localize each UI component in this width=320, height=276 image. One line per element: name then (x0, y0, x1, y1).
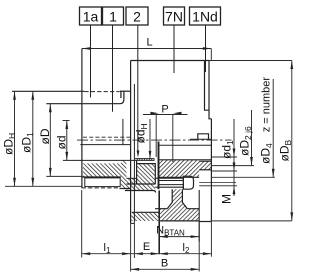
svg-text:NBTAN: NBTAN (156, 225, 185, 238)
svg-text:1: 1 (109, 9, 117, 25)
svg-text:l1: l1 (104, 242, 111, 255)
svg-text:øD2 j6: øD2 j6 (238, 126, 254, 156)
svg-text:B: B (161, 258, 168, 270)
svg-text:1Nd: 1Nd (192, 9, 218, 25)
svg-text:øD1: øD1 (20, 132, 36, 153)
svg-text:ød: ød (54, 135, 68, 149)
svg-text:P: P (161, 103, 168, 115)
svg-text:øDH: øDH (2, 133, 18, 155)
svg-text:ød1: ød1 (220, 140, 236, 159)
svg-text:L: L (147, 37, 153, 49)
svg-text:øD4 z = number: øD4 z = number (259, 77, 275, 164)
svg-text:7N: 7N (165, 9, 183, 25)
svg-text:øD: øD (38, 128, 52, 144)
svg-text:M: M (220, 194, 234, 204)
svg-text:2: 2 (133, 9, 141, 25)
svg-text:E: E (143, 241, 150, 253)
svg-text:ødH: ødH (134, 123, 150, 143)
svg-text:l2: l2 (183, 242, 190, 255)
svg-text:øDB: øDB (278, 140, 294, 162)
svg-text:1a: 1a (83, 9, 99, 25)
